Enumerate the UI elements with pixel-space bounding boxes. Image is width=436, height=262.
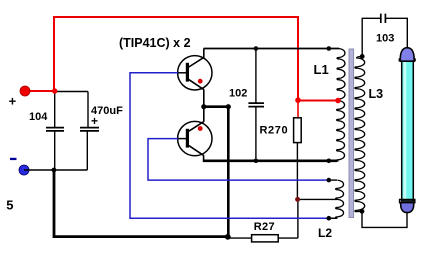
junction dots black [254, 46, 259, 51]
wire red lead to R270 top [297, 101, 299, 118]
junction dot red tap left [295, 97, 301, 103]
wire L2 top entry [329, 179, 337, 181]
wire top collector rail [204, 48, 339, 50]
svg-text:+: + [91, 114, 98, 128]
svg-text:102: 102 [229, 88, 247, 100]
wire R270 bottom lead [296, 143, 298, 200]
wire R27 to L2 tap riser [278, 199, 298, 238]
inductor lower primary winding [337, 101, 345, 162]
capacitor C470uF plates [80, 128, 99, 131]
wire blue Q1 base feedback [130, 73, 329, 218]
tube bottom collar [400, 200, 415, 203]
capacitor C104 plates [46, 128, 64, 131]
wire bottom to R27 [228, 237, 251, 239]
wire node A top [54, 91, 88, 93]
wire red center-tap to transformer [298, 100, 338, 102]
svg-text:L2: L2 [318, 226, 332, 240]
junction dot red tap right [335, 98, 341, 104]
resistor R27 [252, 235, 279, 242]
capacitor C104 top lead [54, 91, 56, 127]
wire red left vertical [53, 16, 55, 91]
capacitor C470uF top lead [87, 92, 89, 128]
transformer core [349, 49, 354, 218]
tube top collar ticks [400, 58, 415, 61]
terminal - (blue) [19, 165, 29, 175]
svg-text:L1: L1 [314, 62, 329, 77]
wire L2 bottom entry [329, 217, 337, 219]
transistor Q1 [178, 49, 212, 91]
resistor R270 [294, 118, 302, 143]
tube inner highlight [404, 61, 407, 200]
svg-text:R270: R270 [260, 125, 289, 137]
inductor L3 secondary winding [355, 56, 365, 211]
wire thick vertical to bottom rail [227, 107, 230, 237]
wire L3 bottom to tube bottom [362, 211, 407, 227]
wire red top rail [54, 16, 298, 18]
svg-text:L3: L3 [369, 87, 384, 101]
wire cap 103 to tube top [386, 18, 408, 47]
tube top cap [400, 48, 414, 62]
tube bottom cap [401, 203, 414, 213]
wire red right vertical [297, 16, 299, 101]
svg-text:103: 103 [376, 33, 394, 45]
fluorescent tube body [402, 60, 414, 201]
capacitor C470uF bottom lead [86, 131, 88, 170]
wire blue Q2 base feedback [148, 139, 329, 181]
wire thick mid junction [204, 105, 229, 106]
capacitor C102 bottom lead [255, 107, 257, 161]
terminal + (red) [20, 86, 30, 96]
wire red from + terminal [25, 90, 54, 92]
capacitor C102 top lead [255, 49, 257, 104]
wire L2 centre tap [297, 198, 337, 200]
wire Q1 emitter down [203, 89, 205, 106]
wire emitter rail [203, 160, 337, 163]
junction dot red + node [52, 88, 57, 93]
inductor L1 winding (upper primary) [337, 49, 345, 101]
transistor Q2 [178, 107, 212, 156]
junction dot dark red L2 tap [295, 197, 300, 202]
capacitor C102 plates [248, 103, 264, 107]
wire L3 top to cap 103 [362, 18, 380, 56]
svg-text:+: + [9, 93, 17, 108]
svg-text:(TIP41C) x 2: (TIP41C) x 2 [119, 36, 191, 50]
capacitor C104 bottom lead [54, 131, 56, 170]
svg-text:R27: R27 [254, 221, 275, 233]
svg-text:104: 104 [29, 111, 48, 123]
inductor L2 winding upper half [336, 180, 344, 199]
wire Q2 emitter down [203, 155, 205, 160]
svg-text:5: 5 [6, 198, 13, 213]
label - [10, 158, 17, 160]
capacitor C103 plates [381, 14, 386, 23]
inductor L2 winding lower half [329, 199, 344, 218]
wire negative rail [54, 170, 228, 237]
wire - terminal to node [24, 169, 87, 171]
